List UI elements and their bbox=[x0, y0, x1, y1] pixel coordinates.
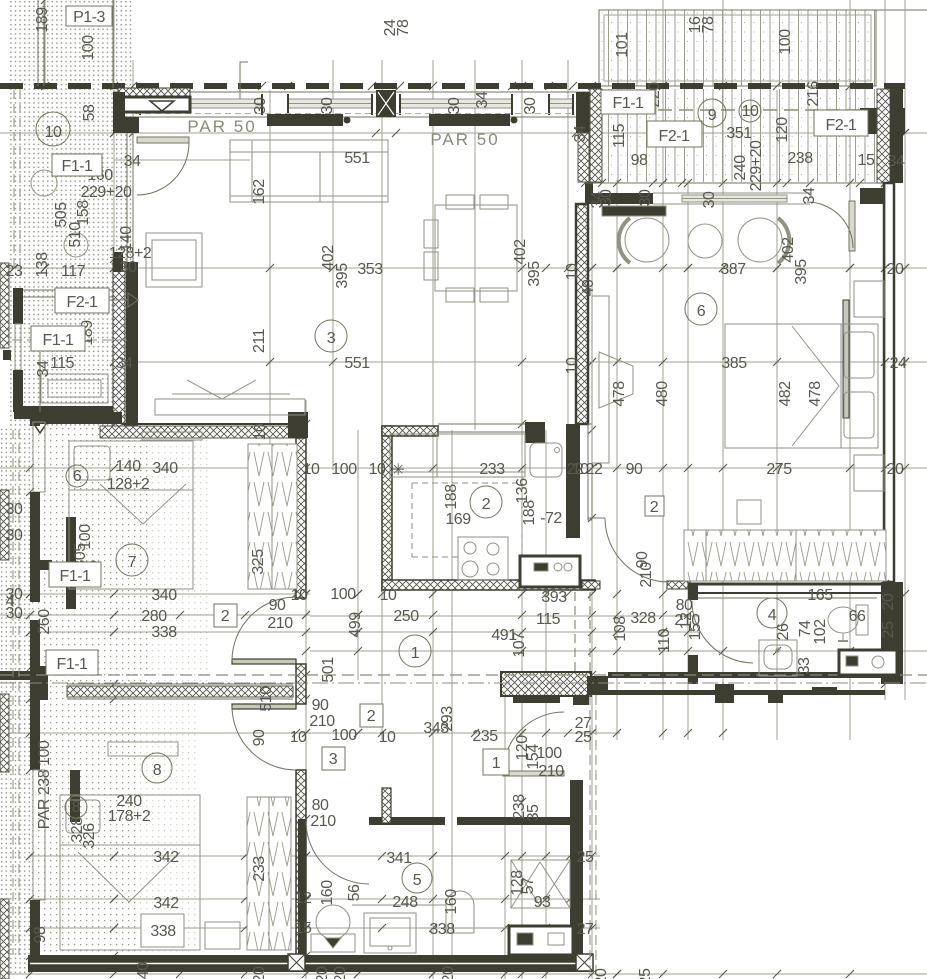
svg-text:F2-1: F2-1 bbox=[67, 294, 99, 311]
svg-text:340: 340 bbox=[152, 460, 178, 477]
room 7 wardrobe bbox=[248, 444, 297, 589]
room 5 counter line bbox=[352, 904, 420, 906]
svg-text:10: 10 bbox=[369, 461, 386, 478]
tag F2-1 pointer bbox=[109, 299, 128, 301]
dark step blocks by hatched block bbox=[513, 695, 560, 703]
thin dashed line loggia 9 bbox=[595, 109, 880, 111]
svg-text:216: 216 bbox=[805, 81, 822, 107]
terrace 10 plant circle 1 bbox=[31, 170, 57, 196]
svg-text:8: 8 bbox=[72, 799, 81, 816]
svg-text:551: 551 bbox=[344, 150, 370, 167]
svg-text:178+2: 178+2 bbox=[108, 808, 151, 825]
room 8 bed bbox=[60, 795, 200, 950]
tag F2-1 right bbox=[814, 110, 868, 136]
svg-text:20: 20 bbox=[887, 461, 904, 478]
room 5 toilet bbox=[316, 905, 350, 939]
svg-text:338: 338 bbox=[429, 921, 455, 938]
radiator bar loggia9 sill bbox=[860, 108, 905, 134]
room 8 door leaf bbox=[232, 704, 296, 709]
room 6 door leaf at north wall bbox=[843, 300, 849, 418]
terrace 10 left edge double line bbox=[37, 0, 39, 86]
left dark block at divider bbox=[30, 666, 48, 700]
svg-text:15: 15 bbox=[687, 623, 704, 640]
svg-text:10: 10 bbox=[564, 263, 581, 280]
svg-text:93: 93 bbox=[534, 894, 551, 911]
tag F1-1 vestibule bbox=[31, 326, 85, 351]
svg-text:30: 30 bbox=[252, 97, 269, 114]
corridor dashed axis lines bbox=[0, 674, 927, 676]
svg-text:110: 110 bbox=[656, 628, 673, 653]
room 7 bed bbox=[69, 441, 193, 589]
room 6 chair right bbox=[738, 218, 782, 262]
svg-text:3: 3 bbox=[329, 751, 338, 768]
svg-text:25: 25 bbox=[577, 849, 594, 866]
window band lower dashed line bbox=[135, 113, 575, 115]
svg-text:551: 551 bbox=[344, 355, 370, 372]
svg-text:7: 7 bbox=[128, 554, 137, 571]
door room 6 west leaf bbox=[588, 517, 605, 519]
door room 5 inner arc bbox=[306, 821, 369, 884]
svg-text:160: 160 bbox=[443, 889, 460, 915]
svg-text:34: 34 bbox=[801, 187, 818, 204]
room 5 shower panel bbox=[446, 891, 474, 933]
bold dashed property line top bbox=[0, 83, 905, 89]
svg-text:90: 90 bbox=[312, 697, 329, 714]
entry arrow bbox=[150, 101, 174, 111]
LAYER: doors bbox=[137, 137, 855, 884]
kitchen sink bbox=[530, 443, 562, 477]
tag 2 room7 bbox=[214, 604, 237, 627]
niche boiler appliance bbox=[509, 926, 573, 955]
bracket symbol top bbox=[240, 62, 248, 102]
svg-text:30: 30 bbox=[522, 97, 539, 114]
svg-text:115: 115 bbox=[611, 123, 628, 148]
room 6 nightstand top bbox=[854, 281, 884, 317]
svg-text:353: 353 bbox=[357, 261, 383, 278]
svg-text:78: 78 bbox=[700, 16, 717, 33]
svg-text:2: 2 bbox=[650, 499, 659, 516]
left strip dashed verticals bbox=[12, 430, 14, 955]
svg-text:F1-1: F1-1 bbox=[57, 656, 89, 673]
room 6 pillows bbox=[844, 332, 874, 378]
svg-text:9: 9 bbox=[708, 107, 717, 124]
room7/8 wall middle pieces bbox=[296, 664, 306, 704]
svg-text:480: 480 bbox=[654, 381, 671, 407]
svg-text:169: 169 bbox=[445, 511, 471, 528]
svg-text:138: 138 bbox=[34, 252, 51, 278]
radiator bar 1 bbox=[267, 114, 343, 126]
wall room3/room7 insulation band bbox=[100, 426, 298, 438]
svg-text:325: 325 bbox=[250, 549, 267, 575]
dining table room 3 bbox=[435, 205, 517, 291]
svg-text:30: 30 bbox=[6, 501, 23, 518]
svg-text:343: 343 bbox=[423, 720, 449, 737]
svg-text:PAR 238 100: PAR 238 100 bbox=[36, 740, 53, 829]
svg-text:1: 1 bbox=[492, 755, 501, 772]
door room 6 from loggia leaf bbox=[849, 201, 855, 251]
svg-text:40: 40 bbox=[580, 279, 597, 296]
svg-text:20: 20 bbox=[880, 593, 897, 610]
room8/5 divider wall bbox=[298, 819, 306, 968]
svg-text:15: 15 bbox=[858, 152, 875, 169]
svg-text:275: 275 bbox=[766, 461, 792, 478]
svg-text:2: 2 bbox=[482, 496, 491, 513]
room 6 north-east corner block bbox=[860, 188, 885, 204]
svg-text:66: 66 bbox=[849, 608, 866, 625]
room 6 desk bbox=[592, 296, 609, 463]
svg-text:26: 26 bbox=[775, 623, 792, 640]
svg-text:30: 30 bbox=[6, 527, 23, 544]
bathroom west wall bbox=[688, 584, 698, 600]
left strip stipple bbox=[0, 428, 30, 975]
svg-text:10: 10 bbox=[380, 587, 397, 604]
room 8 dresser bbox=[108, 742, 178, 756]
svg-text:115: 115 bbox=[50, 355, 75, 372]
room6 south small box bbox=[737, 500, 761, 524]
tag F2-1 vestibule bbox=[55, 288, 109, 313]
window mullion ticks bbox=[140, 94, 573, 115]
svg-text:210: 210 bbox=[538, 763, 564, 780]
svg-text:499: 499 bbox=[347, 612, 364, 638]
svg-text:PAR 50: PAR 50 bbox=[430, 130, 499, 149]
svg-text:342: 342 bbox=[153, 849, 179, 866]
vestibule walls bbox=[14, 289, 113, 291]
svg-text:30: 30 bbox=[701, 191, 718, 208]
svg-text:90: 90 bbox=[269, 597, 286, 614]
svg-text:107: 107 bbox=[511, 632, 528, 658]
svg-text:510: 510 bbox=[67, 222, 84, 248]
svg-text:188: 188 bbox=[521, 500, 538, 526]
room 6 nightstand bottom bbox=[854, 455, 884, 491]
tag 2 room8 bbox=[360, 704, 383, 727]
svg-text:128+2: 128+2 bbox=[107, 476, 150, 493]
svg-text:80: 80 bbox=[312, 797, 329, 814]
svg-text:23: 23 bbox=[6, 263, 23, 280]
svg-text:30: 30 bbox=[319, 97, 336, 114]
svg-text:482: 482 bbox=[777, 381, 794, 407]
room 7 stipple light right bbox=[148, 428, 208, 688]
svg-text:102: 102 bbox=[812, 619, 829, 645]
door room 5 zone leaf bbox=[503, 771, 564, 776]
kitchen west wall bbox=[382, 426, 392, 590]
svg-text:34: 34 bbox=[888, 153, 905, 170]
svg-text:10: 10 bbox=[742, 103, 759, 120]
kitchen oven appliance bbox=[520, 556, 580, 587]
room circle 2 bbox=[470, 486, 502, 518]
loggia 9 upper hatch bbox=[599, 10, 876, 86]
radiator coil bathroom bbox=[667, 581, 688, 589]
svg-text:395: 395 bbox=[334, 263, 351, 289]
horizontal guide lines bbox=[0, 132, 927, 134]
door room 6 from loggia arc bbox=[807, 202, 853, 248]
bathroom south wall bbox=[608, 672, 885, 678]
svg-text:34: 34 bbox=[116, 355, 133, 372]
loggia 9 upper border bbox=[599, 10, 876, 86]
svg-text:10: 10 bbox=[564, 357, 581, 374]
pier middle with X bbox=[376, 90, 396, 117]
tag F1-1 room8 bbox=[46, 650, 98, 675]
svg-text:F1-1: F1-1 bbox=[43, 332, 75, 349]
svg-text:4: 4 bbox=[6, 593, 15, 610]
entry block top-left bbox=[118, 88, 190, 97]
svg-text:20: 20 bbox=[332, 966, 349, 979]
room 7 door leaf bbox=[232, 659, 296, 664]
svg-text:210: 210 bbox=[310, 813, 336, 830]
svg-text:10: 10 bbox=[290, 729, 307, 746]
left corridor wall piece bbox=[0, 671, 30, 680]
svg-text:F2-1: F2-1 bbox=[826, 117, 858, 134]
kitchen north wall bbox=[382, 426, 438, 436]
top border extension line bbox=[876, 9, 927, 11]
svg-text:240: 240 bbox=[135, 962, 152, 979]
svg-text:165: 165 bbox=[807, 587, 833, 604]
svg-text:501: 501 bbox=[320, 657, 337, 683]
svg-text:90: 90 bbox=[251, 729, 268, 746]
svg-text:F1-1: F1-1 bbox=[613, 95, 645, 112]
svg-text:387: 387 bbox=[720, 261, 746, 278]
kitchen window stub dark bbox=[525, 422, 545, 443]
svg-text:211: 211 bbox=[251, 328, 268, 353]
room 7 stipple bbox=[30, 428, 148, 688]
room7/8 east wall upper bbox=[296, 438, 306, 598]
svg-text:25: 25 bbox=[880, 621, 897, 638]
tag F1-1 loggia9 bbox=[601, 90, 655, 114]
svg-text:328: 328 bbox=[630, 610, 656, 627]
svg-text:2: 2 bbox=[221, 608, 230, 625]
svg-text:5: 5 bbox=[413, 872, 422, 889]
svg-text:395: 395 bbox=[793, 259, 810, 285]
right wall room 6 double dark bbox=[884, 183, 894, 582]
tag F2-1 loggia9 bbox=[647, 121, 702, 147]
room circle 5 bbox=[402, 863, 432, 893]
room3/room6 divider wall bbox=[576, 204, 588, 424]
svg-text:90: 90 bbox=[626, 461, 643, 478]
room circle 1 bbox=[399, 635, 431, 667]
svg-text:34: 34 bbox=[124, 153, 141, 170]
vestibule/room7 arrow bbox=[32, 421, 48, 433]
svg-text:6: 6 bbox=[697, 303, 706, 320]
bottom wall bbox=[28, 955, 592, 972]
svg-text:4: 4 bbox=[768, 607, 777, 624]
svg-text:478: 478 bbox=[807, 381, 824, 407]
room6 west wall lower / kitchen east wall bbox=[566, 424, 580, 538]
svg-text:100: 100 bbox=[331, 461, 357, 478]
svg-text:F1-1: F1-1 bbox=[60, 568, 92, 585]
svg-text:393: 393 bbox=[541, 589, 567, 606]
terrace 10 stipple lower bbox=[8, 88, 132, 272]
tv bench room 3 bbox=[155, 399, 305, 415]
terrace 10 plant circle 2 bbox=[64, 233, 88, 257]
door room 6 west arc bbox=[605, 518, 669, 582]
room5 north wall bbox=[369, 817, 445, 825]
bathroom north wall bbox=[688, 583, 885, 586]
svg-text:34: 34 bbox=[572, 125, 589, 142]
svg-text:402: 402 bbox=[512, 239, 529, 265]
room 3 east wall upper bbox=[576, 92, 590, 133]
svg-text:20: 20 bbox=[887, 261, 904, 278]
svg-text:342: 342 bbox=[153, 895, 179, 912]
svg-text:33: 33 bbox=[796, 657, 813, 674]
room 8 stipple light right bbox=[136, 688, 196, 958]
door room 3 entry arc bbox=[137, 143, 189, 195]
tag F1-1 room7 bbox=[49, 562, 101, 587]
svg-text:-72: -72 bbox=[540, 510, 562, 527]
svg-text:58: 58 bbox=[81, 104, 98, 121]
svg-text:160: 160 bbox=[319, 880, 336, 906]
svg-text:25: 25 bbox=[637, 968, 654, 979]
vestibule bench bbox=[41, 374, 108, 403]
svg-text:6: 6 bbox=[73, 468, 82, 485]
svg-text:10: 10 bbox=[291, 587, 308, 604]
svg-text:56: 56 bbox=[346, 884, 363, 901]
bathroom right wall thick bbox=[881, 582, 903, 684]
svg-text:510: 510 bbox=[258, 686, 275, 712]
svg-text:98: 98 bbox=[631, 152, 648, 169]
right outer wall: hatch + dark bbox=[877, 89, 890, 183]
svg-text:210: 210 bbox=[638, 562, 655, 588]
window glazing strips bbox=[140, 99, 573, 108]
room8 east wall lower bbox=[296, 770, 306, 968]
svg-text:233: 233 bbox=[479, 461, 505, 478]
terrace 10 stipple upper bbox=[8, 0, 132, 88]
svg-text:338: 338 bbox=[150, 923, 176, 940]
svg-text:27: 27 bbox=[577, 921, 594, 938]
room 6 bed bbox=[725, 324, 878, 448]
svg-text:235: 235 bbox=[472, 728, 498, 745]
svg-text:108: 108 bbox=[612, 616, 629, 642]
svg-text:136: 136 bbox=[514, 478, 531, 504]
svg-text:✳: ✳ bbox=[392, 462, 405, 479]
svg-text:260: 260 bbox=[36, 609, 53, 635]
vestibule axis dashes bbox=[12, 339, 130, 341]
svg-text:385: 385 bbox=[721, 355, 747, 372]
room circle 6 bbox=[685, 293, 717, 325]
svg-text:101: 101 bbox=[614, 32, 631, 58]
room circle 9 bbox=[698, 99, 726, 127]
bathroom washbasin bbox=[759, 640, 797, 676]
svg-text:35: 35 bbox=[525, 804, 542, 821]
terrace 10 right border bbox=[112, 0, 114, 88]
room 6 wardrobe bbox=[684, 530, 886, 581]
small circle 8 room8 bbox=[65, 796, 87, 818]
room circle 10 bbox=[36, 112, 70, 146]
svg-text:25: 25 bbox=[575, 729, 592, 746]
svg-text:100: 100 bbox=[80, 35, 97, 61]
room5 north wall stub hatch bbox=[382, 788, 391, 823]
tag 2 room6 bbox=[645, 496, 664, 516]
left strip hatch wall pieces bbox=[0, 263, 9, 348]
svg-text:2: 2 bbox=[367, 708, 376, 725]
svg-text:280: 280 bbox=[141, 608, 167, 625]
room 6 sideboard bbox=[602, 206, 666, 216]
svg-text:229+20: 229+20 bbox=[81, 184, 132, 201]
svg-text:140: 140 bbox=[115, 458, 141, 475]
vertical dashed lines bottom right bbox=[589, 695, 591, 979]
niche crib bbox=[511, 860, 570, 908]
svg-text:210: 210 bbox=[267, 615, 293, 632]
svg-text:12: 12 bbox=[295, 890, 312, 907]
vestibule east wall hatch bbox=[113, 262, 125, 427]
svg-text:341: 341 bbox=[386, 850, 412, 867]
svg-text:78: 78 bbox=[395, 19, 412, 36]
bottom X-marker box left bbox=[288, 954, 305, 971]
svg-text:100: 100 bbox=[536, 745, 562, 762]
svg-text:117: 117 bbox=[61, 263, 86, 280]
radiator coil kitchen bbox=[582, 581, 600, 589]
kitchen stove bbox=[458, 537, 508, 580]
room 6 north window bbox=[653, 193, 810, 204]
svg-text:20: 20 bbox=[440, 966, 457, 979]
svg-text:20: 20 bbox=[251, 966, 268, 979]
bottom X-marker box right bbox=[576, 954, 593, 971]
svg-text:3: 3 bbox=[327, 330, 336, 347]
svg-text:351: 351 bbox=[726, 125, 752, 142]
vestibule stipple bbox=[8, 272, 128, 428]
svg-text:22: 22 bbox=[586, 461, 603, 478]
svg-text:188: 188 bbox=[443, 484, 460, 510]
room 8 stipple bbox=[30, 688, 136, 958]
svg-text:189: 189 bbox=[34, 7, 51, 33]
svg-text:100: 100 bbox=[331, 727, 357, 744]
svg-text:10: 10 bbox=[45, 124, 62, 141]
door bathroom arc bbox=[692, 601, 753, 663]
svg-text:100: 100 bbox=[330, 586, 356, 603]
room circle 7 bbox=[116, 544, 148, 576]
svg-text:34: 34 bbox=[35, 360, 52, 377]
top window band room 3: outer lines bbox=[113, 91, 592, 93]
svg-text:100: 100 bbox=[777, 29, 794, 55]
svg-text:395: 395 bbox=[526, 261, 543, 287]
svg-text:250: 250 bbox=[393, 608, 419, 625]
svg-text:10: 10 bbox=[252, 423, 269, 440]
sofa room 3 bbox=[230, 140, 388, 202]
svg-text:98: 98 bbox=[32, 926, 49, 943]
svg-text:20: 20 bbox=[314, 966, 331, 979]
loggia 9 lower hatch bbox=[585, 89, 877, 182]
wall corner left of room 3 bbox=[113, 92, 125, 133]
room 5 washbasin cabinet bbox=[364, 913, 416, 953]
room 8 foot bench bbox=[205, 922, 240, 949]
bathroom toilet bbox=[828, 607, 858, 633]
room 6 chair left bbox=[625, 218, 669, 262]
svg-text:57: 57 bbox=[520, 877, 537, 894]
svg-text:34: 34 bbox=[474, 91, 491, 108]
svg-text:338: 338 bbox=[151, 624, 177, 641]
svg-text:34: 34 bbox=[589, 191, 606, 208]
svg-text:15: 15 bbox=[295, 920, 312, 937]
svg-text:10: 10 bbox=[379, 729, 396, 746]
svg-text:30: 30 bbox=[446, 97, 463, 114]
washing machine bathroom bbox=[839, 650, 897, 675]
svg-text:233: 233 bbox=[251, 856, 268, 882]
svg-text:240: 240 bbox=[732, 155, 749, 181]
corner block room7 NE bbox=[288, 412, 308, 438]
svg-text:20: 20 bbox=[593, 968, 610, 979]
svg-text:478: 478 bbox=[611, 381, 628, 407]
svg-text:238: 238 bbox=[787, 150, 813, 167]
room7/8 divider insulated wall bbox=[67, 686, 293, 697]
tag 1 room5 bbox=[483, 749, 509, 775]
room circle 8 bbox=[142, 753, 172, 783]
corridor south hatched block bbox=[501, 672, 591, 696]
loggia 9 west wall bbox=[590, 89, 602, 182]
wall room3/room7 dark band bbox=[30, 412, 122, 424]
svg-text:402: 402 bbox=[780, 237, 797, 263]
room 6 north wall: left segment bbox=[585, 182, 593, 204]
svg-text:30: 30 bbox=[637, 189, 654, 206]
svg-text:10: 10 bbox=[303, 461, 320, 478]
door room 3 entry leaf bbox=[137, 137, 189, 143]
